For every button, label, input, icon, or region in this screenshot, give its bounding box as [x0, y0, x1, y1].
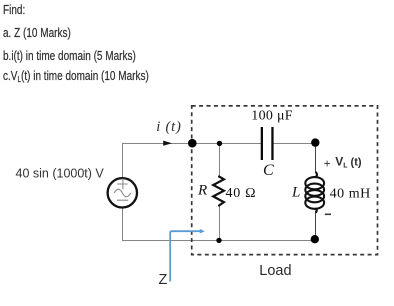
- node: resistor bottom junction: [216, 238, 221, 243]
- wire: resistor branch lower lead: [219, 206, 221, 241]
- wire: resistor branch upper lead: [219, 144, 221, 178]
- svg-text:C: C: [263, 162, 274, 179]
- svg-text:i (t): i (t): [156, 119, 181, 135]
- svg-text:40 Ω: 40 Ω: [226, 186, 257, 201]
- capacitor C plates: [261, 127, 274, 160]
- svg-text:Load: Load: [259, 263, 291, 279]
- question text line: Find:: [3, 4, 25, 17]
- label minus of VL: [325, 213, 331, 215]
- svg-text:40 sin (1000t) V: 40 sin (1000t) V: [16, 166, 105, 180]
- impedance Z pointer arrow (blue): [170, 231, 200, 281]
- svg-text:R: R: [197, 183, 207, 199]
- resistor R zigzag: [213, 177, 224, 206]
- svg-text:L: L: [291, 185, 300, 201]
- source minus sign: [117, 199, 128, 201]
- wire: top horizontal from source to left capacitor plate: [122, 143, 261, 145]
- svg-text:VL (t): VL (t): [335, 154, 362, 169]
- source sine wave: [114, 189, 130, 197]
- svg-text:100 μF: 100 μF: [251, 108, 293, 123]
- svg-text:Z: Z: [159, 272, 168, 288]
- node: entry node on dashed border: [188, 139, 197, 148]
- svg-text:+: +: [324, 158, 331, 170]
- svg-text:40 mH: 40 mH: [330, 187, 371, 202]
- voltage source V1 (AC source circle): [108, 178, 137, 207]
- question text line a: [3, 27, 71, 40]
- node: inductor bottom junction: [311, 235, 319, 243]
- question text line c: [3, 70, 149, 83]
- wire: inductor branch lower lead: [315, 211, 317, 240]
- wire: left vertical from top wire to bottom wire through source: [122, 144, 124, 241]
- inductor L coil: [305, 172, 324, 213]
- node: resistor top junction: [217, 141, 222, 146]
- source plus sign: [117, 179, 127, 190]
- node: inductor top junction: [311, 138, 319, 146]
- question text line b: [3, 50, 136, 63]
- wire: bottom horizontal return: [122, 240, 316, 242]
- wire: inductor branch upper lead: [315, 143, 317, 173]
- current direction arrow on top wire: [163, 141, 172, 146]
- dashed load box: [192, 106, 378, 255]
- wire: top horizontal from right capacitor plate to inductor top node: [273, 143, 316, 145]
